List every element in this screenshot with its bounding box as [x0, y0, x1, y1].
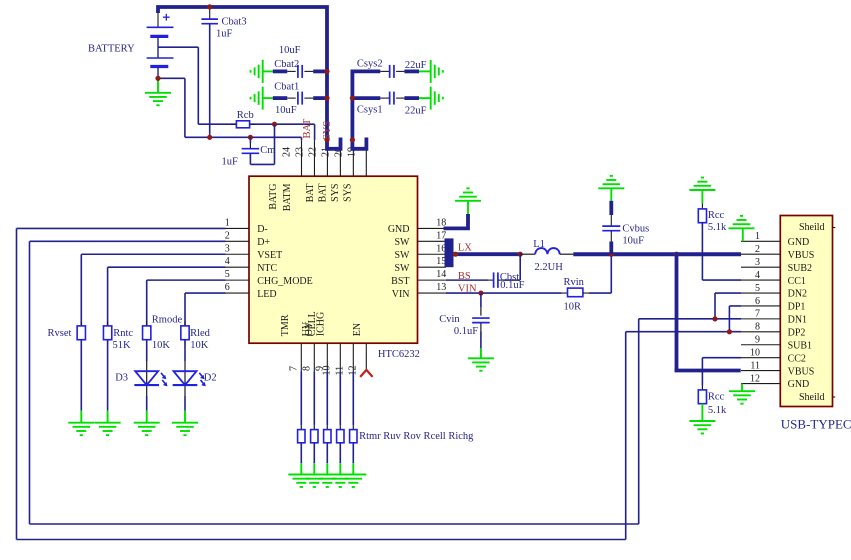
svg-text:Rntc: Rntc: [113, 328, 133, 339]
svg-text:2: 2: [225, 230, 230, 241]
svg-text:D3: D3: [115, 373, 128, 384]
svg-text:10K: 10K: [190, 340, 209, 351]
svg-text:NTC: NTC: [257, 263, 277, 274]
svg-text:TMR: TMR: [280, 314, 291, 336]
svg-text:7: 7: [755, 309, 760, 320]
svg-text:D+: D+: [257, 237, 270, 248]
svg-text:10uF: 10uF: [622, 236, 644, 247]
svg-text:SYS: SYS: [330, 184, 341, 202]
svg-text:6: 6: [225, 282, 230, 293]
svg-text:1uF: 1uF: [216, 28, 233, 39]
svg-text:13: 13: [436, 282, 446, 293]
svg-text:D-: D-: [257, 224, 268, 235]
svg-text:Cvin: Cvin: [439, 314, 460, 325]
svg-text:2: 2: [755, 244, 760, 255]
svg-text:9: 9: [755, 335, 760, 346]
svg-text:DP1: DP1: [788, 302, 806, 313]
svg-text:VIN: VIN: [458, 284, 477, 295]
svg-text:5.1k: 5.1k: [708, 405, 727, 416]
svg-text:Cbat2: Cbat2: [274, 59, 299, 70]
svg-text:SW: SW: [395, 237, 411, 248]
svg-text:DN2: DN2: [788, 289, 807, 300]
svg-text:BATM: BATM: [282, 183, 293, 211]
svg-text:10uF: 10uF: [279, 45, 301, 56]
svg-text:Rcc: Rcc: [708, 210, 725, 221]
svg-text:1uF: 1uF: [222, 156, 239, 167]
svg-text:5: 5: [755, 283, 760, 294]
svg-text:8: 8: [302, 366, 313, 371]
svg-text:7: 7: [289, 366, 300, 371]
svg-text:BAT: BAT: [305, 184, 316, 203]
svg-text:1: 1: [225, 217, 230, 228]
svg-text:VIN: VIN: [392, 289, 410, 300]
svg-text:10R: 10R: [564, 302, 582, 313]
svg-text:Rled: Rled: [190, 328, 211, 339]
svg-text:6: 6: [755, 296, 760, 307]
svg-text:Csys1: Csys1: [357, 104, 383, 115]
svg-text:BATTERY: BATTERY: [88, 44, 135, 55]
svg-text:BAT: BAT: [318, 184, 329, 203]
svg-text:1: 1: [755, 231, 760, 242]
svg-text:5: 5: [225, 269, 230, 280]
svg-text:GND: GND: [788, 379, 810, 390]
svg-text:Cvbus: Cvbus: [622, 223, 649, 234]
svg-text:LX: LX: [458, 242, 472, 253]
svg-text:Rcb: Rcb: [237, 110, 254, 121]
svg-text:L1: L1: [533, 239, 545, 250]
svg-text:10: 10: [750, 347, 760, 358]
svg-text:10K: 10K: [152, 340, 171, 351]
svg-text:4: 4: [755, 270, 760, 281]
svg-text:GND: GND: [388, 224, 410, 235]
svg-text:BS: BS: [458, 271, 471, 282]
svg-text:22: 22: [307, 147, 318, 157]
svg-text:LED: LED: [257, 289, 276, 300]
svg-text:4: 4: [225, 256, 230, 267]
svg-text:SUB2: SUB2: [788, 263, 812, 274]
svg-text:Rmode: Rmode: [152, 314, 183, 325]
svg-text:Sheild: Sheild: [799, 222, 825, 233]
svg-text:51K: 51K: [113, 340, 132, 351]
svg-text:BST: BST: [391, 276, 409, 287]
svg-text:SW: SW: [395, 263, 411, 274]
svg-text:5.1k: 5.1k: [708, 222, 727, 233]
svg-text:22uF: 22uF: [405, 60, 427, 71]
svg-text:3: 3: [755, 257, 760, 268]
svg-text:2.2UH: 2.2UH: [535, 262, 564, 273]
svg-text:Rcc: Rcc: [708, 391, 725, 402]
svg-text:Rvset: Rvset: [48, 328, 72, 339]
svg-text:Csys2: Csys2: [357, 59, 383, 70]
svg-text:HTC6232: HTC6232: [378, 349, 420, 360]
svg-text:ICHG: ICHG: [316, 312, 327, 336]
svg-text:24: 24: [282, 147, 293, 157]
svg-text:DP2: DP2: [788, 328, 806, 339]
svg-text:0.1uF: 0.1uF: [454, 326, 478, 337]
svg-text:VBUS: VBUS: [788, 366, 815, 377]
svg-text:DN1: DN1: [788, 315, 807, 326]
svg-text:Rvin: Rvin: [564, 277, 585, 288]
svg-text:3: 3: [225, 243, 230, 254]
svg-text:Sheild: Sheild: [799, 392, 825, 403]
svg-text:BAT: BAT: [302, 118, 313, 138]
svg-text:Cbat1: Cbat1: [274, 81, 299, 92]
svg-text:SW: SW: [395, 250, 411, 261]
svg-text:14: 14: [436, 269, 446, 280]
svg-text:CC1: CC1: [788, 276, 806, 287]
svg-text:BATG: BATG: [268, 184, 279, 210]
svg-text:Rtmr Ruv Rov Rcell Richg: Rtmr Ruv Rov Rcell Richg: [359, 431, 474, 442]
svg-text:10uF: 10uF: [275, 105, 297, 116]
svg-text:12: 12: [750, 373, 760, 384]
svg-text:23: 23: [294, 147, 305, 157]
svg-text:Cbat3: Cbat3: [222, 17, 247, 28]
svg-text:SYS: SYS: [343, 184, 354, 202]
svg-text:D2: D2: [204, 373, 217, 384]
svg-text:VSET: VSET: [257, 250, 282, 261]
svg-text:SUB1: SUB1: [788, 340, 812, 351]
svg-text:0.1uF: 0.1uF: [500, 280, 524, 291]
svg-text:11: 11: [750, 360, 760, 371]
svg-text:CC2: CC2: [788, 353, 806, 364]
svg-text:GND: GND: [788, 237, 810, 248]
svg-text:EN: EN: [352, 323, 363, 336]
svg-text:USB-TYPEC: USB-TYPEC: [781, 417, 851, 432]
svg-text:22uF: 22uF: [405, 106, 427, 117]
svg-text:CHG_MODE: CHG_MODE: [257, 276, 313, 287]
svg-text:Cm: Cm: [260, 145, 275, 156]
svg-text:VBUS: VBUS: [788, 250, 815, 261]
svg-text:8: 8: [755, 322, 760, 333]
svg-text:SYS: SYS: [322, 121, 333, 140]
